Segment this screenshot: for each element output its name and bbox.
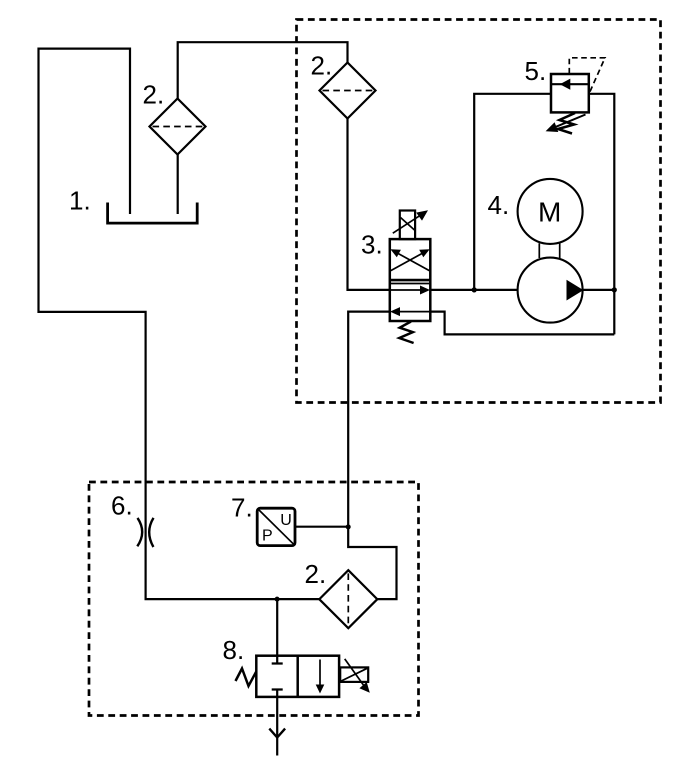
junction pump outlet bbox=[612, 287, 617, 292]
wire manifold to valve 8 bbox=[276, 599, 278, 656]
motor M (label 4.) bbox=[518, 179, 583, 244]
dashed enclosure box (hydraulic power unit) bbox=[297, 20, 661, 403]
wire sensor tap bbox=[295, 526, 348, 528]
wire valve 3 lower left port down to test box bbox=[348, 312, 396, 599]
shaft motor-pump bbox=[539, 243, 559, 258]
svg-text:7.: 7. bbox=[231, 493, 253, 523]
valve 3 lower position arrows bbox=[391, 289, 425, 291]
relief valve 5 pilot dashed line bbox=[569, 58, 605, 92]
junction sensor tap bbox=[346, 524, 351, 529]
valve 8 spring bbox=[236, 669, 257, 687]
relief valve 5 body bbox=[551, 74, 589, 112]
svg-text:5.: 5. bbox=[525, 56, 547, 86]
wire pump outlet bbox=[583, 289, 614, 291]
valve 3 body bbox=[390, 239, 431, 321]
wire return loop to valve 3 lower right port bbox=[430, 312, 614, 335]
wire suction tank to filter F1 bbox=[177, 155, 179, 215]
svg-text:6.: 6. bbox=[111, 491, 133, 521]
drain line with arrow bbox=[276, 697, 278, 756]
junction bottom manifold bbox=[275, 597, 280, 602]
valve 3 proportional solenoid bbox=[400, 211, 415, 240]
svg-text:2.: 2. bbox=[305, 559, 327, 589]
wire valve 3 to pump inlet bbox=[430, 289, 517, 291]
junction pump inlet / pilot bbox=[472, 287, 477, 292]
svg-text:P: P bbox=[262, 527, 273, 544]
filter F3 (label 2.) bbox=[319, 570, 377, 628]
filter F1 (label 2.) bbox=[150, 99, 206, 155]
valve 8 flow arrow bbox=[319, 660, 321, 690]
filter F2 (label 2.) bbox=[320, 63, 376, 119]
tank T1 bbox=[108, 203, 198, 224]
wire relief valve right port to pump outlet node bbox=[589, 94, 615, 335]
svg-text:U: U bbox=[280, 512, 292, 529]
svg-text:2.: 2. bbox=[143, 80, 165, 110]
svg-text:3.: 3. bbox=[361, 230, 383, 260]
valve 8 blocked port stubs bbox=[272, 656, 283, 697]
valve 8 proportional solenoid bbox=[340, 667, 368, 682]
svg-text:8.: 8. bbox=[223, 635, 245, 665]
dashed enclosure box 6 (test section) bbox=[89, 482, 419, 716]
pressure transducer 7 (P/U) bbox=[257, 508, 295, 545]
valve 8 body bbox=[256, 656, 339, 697]
svg-text:M: M bbox=[538, 197, 561, 228]
coupling 6 arcs bbox=[137, 518, 142, 546]
valve 3 spring bbox=[399, 322, 413, 344]
relief valve 5 spring with adjustment arrow bbox=[558, 113, 575, 134]
svg-text:4.: 4. bbox=[488, 190, 510, 220]
svg-text:1.: 1. bbox=[69, 186, 91, 216]
svg-text:2.: 2. bbox=[311, 51, 333, 81]
wire return line (tank to lower manifold) bbox=[39, 49, 320, 600]
valve 3 upper position crossed arrows bbox=[391, 252, 425, 271]
wire filter F1 to filter F2 bbox=[178, 42, 348, 98]
wire filter F2 down to valve 3 inlet bbox=[348, 119, 390, 290]
wire pilot line to relief valve left port bbox=[474, 94, 551, 290]
pump bbox=[518, 258, 583, 323]
